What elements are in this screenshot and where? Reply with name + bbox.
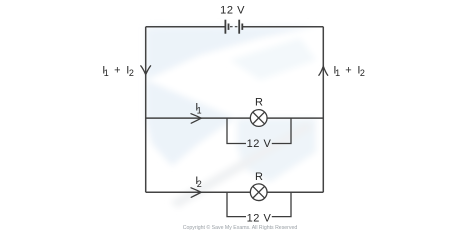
svg-text:2: 2 [360, 68, 365, 78]
svg-text:1: 1 [104, 68, 109, 78]
svg-text:12 V: 12 V [247, 138, 272, 150]
svg-text:+: + [114, 64, 120, 76]
svg-text:+: + [345, 64, 351, 76]
svg-text:2: 2 [197, 179, 202, 189]
svg-text:2: 2 [129, 68, 134, 78]
svg-text:1: 1 [197, 106, 202, 116]
svg-text:R: R [255, 171, 263, 183]
svg-text:12 V: 12 V [220, 5, 245, 17]
svg-text:12 V: 12 V [247, 212, 272, 224]
svg-text:1: 1 [335, 68, 340, 78]
svg-text:Copyright © Save My Exams. All: Copyright © Save My Exams. All Rights Re… [183, 224, 298, 231]
svg-text:R: R [255, 96, 263, 108]
